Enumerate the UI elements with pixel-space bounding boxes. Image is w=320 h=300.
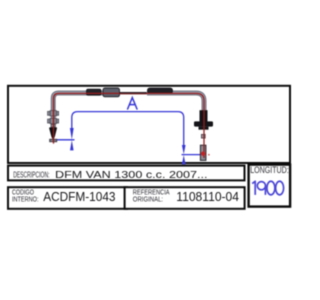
svg-text:ORIGINAL:: ORIGINAL:: [133, 194, 163, 203]
svg-text:DFM VAN 1300 c.c. 2007...: DFM VAN 1300 c.c. 2007...: [55, 170, 208, 181]
svg-text:LONGITUD:: LONGITUD:: [250, 165, 289, 175]
svg-text:DESCRIPCION:: DESCRIPCION:: [13, 169, 49, 179]
svg-text:INTERNO:: INTERNO:: [12, 194, 39, 203]
svg-text:1108110-04: 1108110-04: [176, 190, 239, 204]
svg-text:ACDFM-1043: ACDFM-1043: [43, 190, 115, 204]
